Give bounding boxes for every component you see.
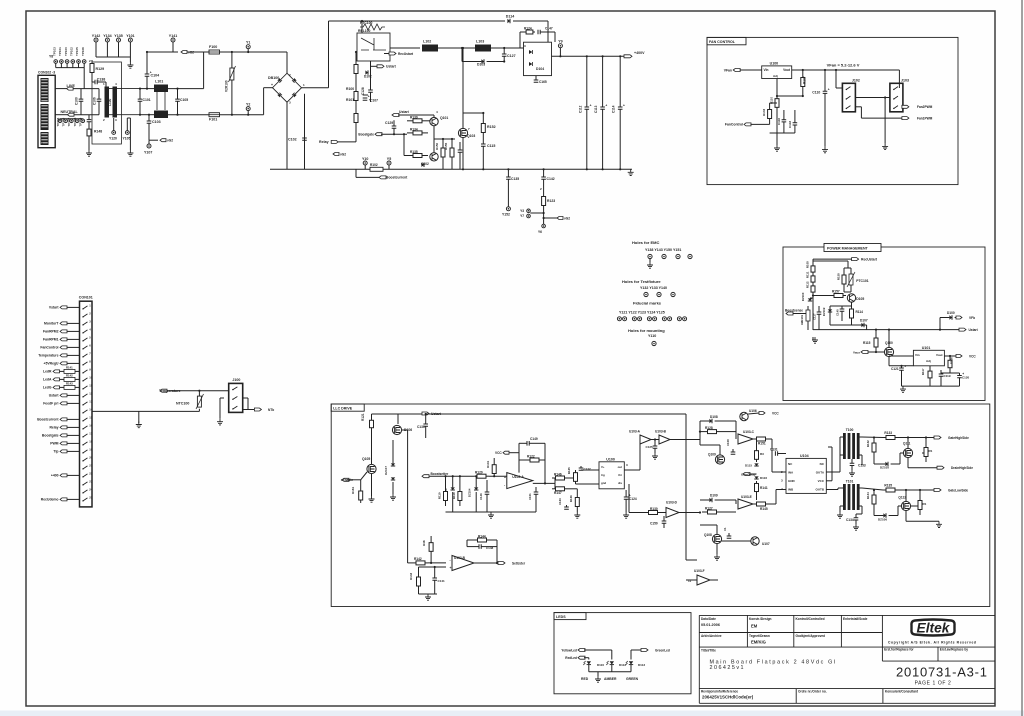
net tag Boostgate <box>375 133 382 136</box>
resistor R112 <box>812 284 814 286</box>
wire stack bottom <box>355 128 357 134</box>
wire t100 sec top <box>858 436 862 438</box>
svg-text:C123: C123 <box>558 498 562 505</box>
capacitor C112 <box>585 107 590 109</box>
svg-text:R134: R134 <box>866 492 870 499</box>
net tag VFb <box>956 316 962 319</box>
svg-text:Ustart: Ustart <box>399 110 410 114</box>
zener DZ103 <box>451 487 455 490</box>
svg-text:Boostgate: Boostgate <box>42 434 59 438</box>
svg-text:Q111: Q111 <box>903 442 911 446</box>
wire Y10 stub <box>364 165 366 169</box>
net tag RecUstart top <box>389 52 396 55</box>
svg-text:C149: C149 <box>530 437 538 441</box>
inverter U103-B <box>659 435 670 444</box>
svg-text:Y2: Y2 <box>246 102 250 106</box>
resistor R141 <box>756 481 758 483</box>
resistor R122 <box>524 459 530 461</box>
ground con101 <box>136 422 142 428</box>
wire NEUTRAL rail a <box>74 114 99 116</box>
svg-text:D103: D103 <box>477 63 485 67</box>
wire u100 out up <box>639 444 641 470</box>
svg-text:R146: R146 <box>554 473 562 477</box>
svg-text:PAGE 1 OF 2: PAGE 1 OF 2 <box>915 681 952 687</box>
capacitor C102 <box>302 138 307 140</box>
diode D109 <box>709 498 712 502</box>
wire fb2 <box>467 539 472 541</box>
wire fb right <box>544 460 546 483</box>
svg-text:RedLed: RedLed <box>565 656 577 660</box>
wire tag to F100 <box>187 51 209 53</box>
net tag VCC llc <box>503 451 509 454</box>
wire tp stub <box>66 63 68 67</box>
svg-text:Y3: Y3 <box>520 209 524 213</box>
connector CON102 AC input <box>38 75 55 147</box>
svg-text:F101: F101 <box>209 118 217 122</box>
svg-text:Y6: Y6 <box>538 230 542 234</box>
svg-text:D100: D100 <box>947 311 955 315</box>
test point TP108 <box>75 119 79 123</box>
svg-text:C140: C140 <box>836 309 840 316</box>
net tag Boostsetter <box>422 475 429 478</box>
transistor Q101 <box>430 117 438 125</box>
svg-text:Revisjonsinfo/Reference: Revisjonsinfo/Reference <box>701 689 738 693</box>
wire C135 top <box>507 169 509 177</box>
resistor R114 <box>851 302 853 306</box>
test point Y105 <box>125 131 129 135</box>
relay REL100 <box>357 33 390 61</box>
svg-text:vG2: vG2 <box>340 152 346 156</box>
resistor R148 llc <box>430 536 432 540</box>
wire Y142 stub <box>95 42 97 57</box>
capacitor C131 <box>775 451 777 456</box>
svg-text:RED: RED <box>581 677 589 681</box>
svg-text:NEUTRAL: NEUTRAL <box>61 110 79 114</box>
svg-text:R132: R132 <box>866 440 870 447</box>
net tag vG4 <box>557 217 563 220</box>
resistor R136 <box>922 452 926 454</box>
capacitor C107 <box>363 94 368 96</box>
wire Y3 stub <box>530 212 543 214</box>
wire tp stub <box>55 63 57 67</box>
wire C102 branch <box>304 94 306 170</box>
svg-text:C119: C119 <box>944 374 951 378</box>
wire C142 to R123 <box>543 179 545 191</box>
ground leds <box>595 676 601 682</box>
net tag Ustart pm <box>959 328 966 331</box>
wire t100 sec bot <box>858 454 862 456</box>
svg-text:VFb: VFb <box>969 316 975 320</box>
svg-text:NTC100: NTC100 <box>176 402 189 406</box>
thermistor PTC100 <box>360 24 385 30</box>
MOSFET Q109 <box>715 455 724 464</box>
svg-text:Adj: Adj <box>926 359 931 363</box>
svg-text:R147: R147 <box>554 491 562 495</box>
net tag temp out <box>254 408 261 411</box>
svg-text:Holes for EMC: Holes for EMC <box>632 240 659 245</box>
capacitor C135 <box>506 177 511 179</box>
svg-text:NTb: NTb <box>268 408 274 412</box>
svg-text:Vaux: Vaux <box>853 350 860 354</box>
svg-text:U104: U104 <box>800 454 809 458</box>
svg-text:TP100: TP100 <box>64 47 68 56</box>
resistor R108 <box>812 259 814 264</box>
hole Y14x <box>676 254 680 258</box>
test point TP103 <box>71 60 75 64</box>
net tag Relay con101 <box>60 426 67 429</box>
wire rail to relay <box>361 21 363 33</box>
hole Y14x <box>662 254 666 258</box>
wire J100 pin3 <box>243 409 262 411</box>
svg-text:D112: D112 <box>619 663 626 667</box>
svg-text:TP104: TP104 <box>56 117 60 126</box>
test point TP106 <box>64 119 68 123</box>
capacitor C150 <box>663 516 665 521</box>
resistor R110 <box>776 96 778 99</box>
thermistor PTC101 <box>849 274 853 285</box>
svg-text:C100: C100 <box>75 97 79 105</box>
svg-text:U103-D: U103-D <box>666 501 678 505</box>
svg-text:R142: R142 <box>66 374 73 378</box>
svg-text:C165: C165 <box>539 80 547 84</box>
wire tp stub <box>78 63 80 67</box>
svg-text:D105: D105 <box>856 297 864 301</box>
hole Y13x <box>644 292 648 296</box>
svg-text:R127: R127 <box>705 507 713 511</box>
svg-text:R141: R141 <box>760 486 768 490</box>
test point Y141 <box>171 38 175 42</box>
capacitor C124 <box>625 490 627 497</box>
diode D102 <box>365 70 368 74</box>
wire pm gnd bus <box>902 385 960 387</box>
svg-text:R118: R118 <box>452 492 456 499</box>
hole Y110 <box>652 341 656 345</box>
wire Y5 stub <box>388 165 390 169</box>
svg-text:D114: D114 <box>506 15 514 19</box>
wire vfan to J102 <box>835 70 837 88</box>
svg-text:R122: R122 <box>527 455 535 459</box>
capacitor C105 <box>175 99 180 101</box>
svg-text:R135: R135 <box>884 483 892 487</box>
ground q112 <box>936 521 942 527</box>
svg-text:R124: R124 <box>524 27 532 31</box>
wire C114 top <box>619 56 621 107</box>
net tag Ustart con101 <box>60 394 67 397</box>
svg-text:C141: C141 <box>438 579 446 583</box>
wire live up to fuse rail <box>203 52 205 89</box>
wire C112 top <box>586 56 588 107</box>
inductor L103 <box>475 45 491 52</box>
svg-text:+: + <box>904 365 906 369</box>
wire con to NEUTRAL <box>55 114 67 116</box>
ground right of R148 <box>127 150 133 156</box>
wire r120 to opamp <box>489 475 507 477</box>
svg-text:INA: INA <box>788 471 794 475</box>
wire C104 bot <box>146 76 148 88</box>
wire con101 pin14 long <box>92 410 199 412</box>
capacitor C114 <box>618 107 623 109</box>
wire q100 source <box>888 357 890 366</box>
svg-text:R148: R148 <box>94 130 102 134</box>
svg-text:R117: R117 <box>921 368 925 375</box>
wire C138 to L100 <box>97 81 106 83</box>
inverter U103-D <box>666 508 679 518</box>
inductor L100 common-mode choke <box>105 87 110 118</box>
test point Y3 <box>527 209 531 213</box>
wire Y9 stub <box>559 48 561 57</box>
svg-text:U106: U106 <box>749 409 757 413</box>
wire tp stub <box>60 63 62 67</box>
svg-text:FeedF pri: FeedF pri <box>43 402 58 406</box>
wire u102b out <box>474 562 497 564</box>
diode D107 <box>851 321 853 325</box>
svg-text:Y152: Y152 <box>502 213 510 217</box>
wire outa <box>826 471 840 473</box>
net tag GateLowSide <box>934 489 941 492</box>
resistor R118 <box>459 486 461 492</box>
svg-text:R100: R100 <box>346 87 354 91</box>
wire t100 pri top <box>839 437 841 472</box>
svg-text:L101: L101 <box>155 80 163 84</box>
capacitor C113 <box>600 107 605 109</box>
svg-text:LIVE: LIVE <box>67 84 76 88</box>
wire C136 top <box>88 115 90 120</box>
wire c124 gnd <box>625 499 627 512</box>
ground u102b <box>425 594 431 600</box>
wire vcc u104 <box>826 480 832 482</box>
ground fan3 <box>882 143 888 149</box>
wire dz106 to q112 <box>897 506 899 516</box>
svg-text:+: + <box>590 104 592 108</box>
svg-text:+: + <box>41 142 44 147</box>
wire hole gnd stub <box>649 259 651 262</box>
varistor X2R101 <box>806 310 810 321</box>
wire neutral up <box>263 88 265 115</box>
wire r128 out <box>722 431 736 433</box>
test point Y101 <box>128 38 132 42</box>
svg-text:TP102: TP102 <box>70 47 74 56</box>
gate driver U104 <box>786 458 826 493</box>
svg-text:C117: C117 <box>813 313 817 320</box>
transistor U107 <box>751 537 759 545</box>
test point Y5 <box>387 161 391 165</box>
svg-text:C112: C112 <box>578 105 582 113</box>
svg-text:+5VRegU: +5VRegU <box>44 362 60 366</box>
LLC DRIVE section box <box>331 404 990 607</box>
wire u101 out <box>944 355 962 357</box>
wire t101 sec bot <box>858 505 862 507</box>
svg-text:U107: U107 <box>762 542 770 546</box>
svg-text:Boostgate: Boostgate <box>358 133 374 137</box>
svg-text:Q103: Q103 <box>467 134 475 138</box>
wire C105 bot <box>177 101 179 114</box>
sheet bottom edge shadow strip <box>0 711 1024 716</box>
svg-text:DZ105: DZ105 <box>880 466 889 470</box>
wire tp bus <box>56 67 84 69</box>
svg-text:C121: C121 <box>891 367 899 371</box>
net tag Vstart con101 <box>60 306 67 309</box>
wire boostsetter <box>429 475 474 477</box>
svg-text:REL100: REL100 <box>358 29 371 33</box>
ground pfc bus <box>628 169 634 175</box>
resistor R155 <box>451 142 453 148</box>
wire Y2 stub <box>247 111 249 115</box>
net tag YellowLed <box>578 649 585 652</box>
svg-text:C115: C115 <box>487 144 495 148</box>
svg-text:C128: C128 <box>361 87 365 95</box>
svg-text:Relay: Relay <box>49 426 58 430</box>
svg-text:C110: C110 <box>812 91 820 95</box>
ground llc mid <box>488 512 494 518</box>
zener DZ106 <box>883 513 886 517</box>
svg-text:Copyright A/S Eltek. All Righ: Copyright A/S Eltek. All Rights Reserved <box>888 641 976 645</box>
wire Q103 drain <box>462 48 464 128</box>
svg-text:C135: C135 <box>511 177 519 181</box>
svg-text:DZ100: DZ100 <box>801 292 805 301</box>
svg-text:Y8: Y8 <box>49 55 53 59</box>
LED D112 <box>606 661 614 665</box>
wire q108 drain <box>716 525 718 534</box>
svg-text:Fiducial marks: Fiducial marks <box>633 301 662 306</box>
svg-text:Q109: Q109 <box>708 453 716 457</box>
wire out to r146 <box>554 478 556 483</box>
svg-text:J103: J103 <box>901 79 909 83</box>
test point TP107 <box>70 119 74 123</box>
wire tp2 bus <box>60 118 83 120</box>
wire q111 src <box>907 458 909 468</box>
wire Y134 stub <box>106 42 108 57</box>
wire R148 to gnd <box>88 138 90 150</box>
inverter U103-C <box>738 434 753 444</box>
svg-text:Erst.av/Replace by: Erst.av/Replace by <box>940 648 969 652</box>
wire ptc top <box>847 261 849 268</box>
connector J100 <box>229 383 243 412</box>
ground fan1 <box>774 145 780 151</box>
wire q108 src <box>716 544 718 554</box>
resistor R157 <box>831 295 834 297</box>
wire Y120 stub <box>113 118 115 131</box>
svg-text:C118: C118 <box>788 121 792 128</box>
svg-text:C127: C127 <box>507 54 516 58</box>
wire dz107 bot <box>392 482 394 494</box>
resistor R146 <box>552 477 556 479</box>
svg-text:U103-B: U103-B <box>655 430 667 434</box>
wire vcc to opamp <box>518 453 520 473</box>
resistor R158 <box>843 272 845 275</box>
svg-text:VFan = 5.2-12.6 V: VFan = 5.2-12.6 V <box>827 62 860 67</box>
fiducial pair <box>662 317 666 321</box>
wire to C138 <box>92 81 95 83</box>
svg-text:TP101: TP101 <box>58 47 62 56</box>
svg-text:Holes for mounting: Holes for mounting <box>628 328 665 333</box>
net tag LedA con101 <box>64 377 75 381</box>
capacitor C129 <box>393 120 395 126</box>
svg-text:Y9: Y9 <box>558 40 562 44</box>
svg-text:V+: V+ <box>601 465 605 469</box>
svg-text:2010731-A3-1: 2010731-A3-1 <box>896 665 987 680</box>
net tag FanRPM2 con101 <box>60 330 67 333</box>
svg-text:out: out <box>618 465 622 469</box>
transistor U106 <box>740 412 748 420</box>
svg-text:LedR: LedR <box>43 370 52 374</box>
diode D108 <box>709 419 712 423</box>
svg-text:PTC101: PTC101 <box>856 279 869 283</box>
svg-text:R143: R143 <box>409 572 413 580</box>
transformer T100 <box>843 433 846 459</box>
test point Y7 <box>527 214 531 218</box>
svg-text:R107: R107 <box>803 76 807 84</box>
svg-text:DZ104: DZ104 <box>468 488 472 497</box>
op-amp U102-B <box>452 556 474 571</box>
resistor R125 <box>575 470 577 478</box>
svg-text:DZ102: DZ102 <box>822 307 826 316</box>
svg-text:D109: D109 <box>710 494 718 498</box>
wire relay tag up <box>355 134 357 142</box>
svg-text:D110: D110 <box>597 663 604 667</box>
svg-text:R150: R150 <box>435 142 439 150</box>
svg-text:Y142: Y142 <box>92 34 100 38</box>
svg-text:T101: T101 <box>846 480 854 484</box>
wire R107 bot <box>802 90 804 96</box>
wire opamp out <box>533 482 555 484</box>
svg-text:FAN CONTROL: FAN CONTROL <box>709 40 736 44</box>
wire C103 bot <box>148 123 150 140</box>
test point Y152 <box>506 207 510 211</box>
zener DZ107 <box>391 463 395 466</box>
wire dz107 top <box>392 440 394 463</box>
svg-text:CON102 -3: CON102 -3 <box>38 71 55 75</box>
wire u106 vcc <box>748 413 759 414</box>
net tag Temperature mid <box>160 389 167 392</box>
wire q112 drain <box>905 490 907 501</box>
net tag MonitorT con101 <box>60 322 67 325</box>
svg-text:D113: D113 <box>638 663 645 667</box>
test point Y142 <box>94 38 98 42</box>
connector CON101 <box>80 301 93 507</box>
capacitor C119 <box>940 370 942 374</box>
MOSFET Q111 <box>903 448 912 457</box>
wire Y135 stub <box>118 42 120 57</box>
resistor R139 <box>407 120 413 122</box>
net tag +400 con101 <box>60 474 67 477</box>
svg-text:Y121 Y122 Y123 Y124 Y125: Y121 Y122 Y123 Y124 Y125 <box>619 311 665 315</box>
wire relay out <box>390 47 420 49</box>
svg-text:FanRPM2: FanRPM2 <box>43 330 59 334</box>
wire t101 pri bot <box>840 505 844 507</box>
wire led bottom <box>630 665 632 672</box>
resistor R144 <box>472 539 478 541</box>
svg-text:R119: R119 <box>438 492 442 499</box>
resistor R119 <box>445 486 447 492</box>
capacitor C123 <box>566 505 568 507</box>
svg-text:+: + <box>828 88 830 92</box>
svg-text:U103-E: U103-E <box>741 495 752 499</box>
fuse F101 <box>209 113 220 117</box>
resistor R134 <box>407 132 413 134</box>
wire Q103 source <box>462 138 464 170</box>
svg-text:R115: R115 <box>863 341 871 345</box>
wire bus to boostcurrent <box>355 169 357 177</box>
bridge rectifier DB100 <box>273 73 302 102</box>
wire vertical llc left rail <box>407 436 409 563</box>
Eltek logo <box>911 620 954 636</box>
svg-text:dis: dis <box>618 481 622 485</box>
hole Y13x <box>657 292 661 296</box>
thermistor NTC100 <box>197 396 201 407</box>
capacitor C121 <box>901 366 903 368</box>
LED D110 <box>583 661 591 665</box>
svg-text:-: - <box>450 558 451 562</box>
